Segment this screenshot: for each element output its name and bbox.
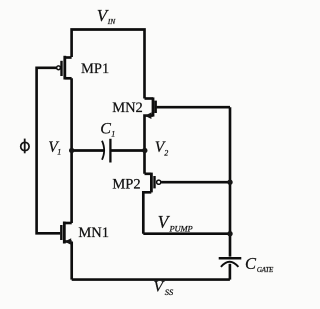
svg-text:MP2: MP2 [112,177,140,193]
svg-text:MP1: MP1 [81,61,109,77]
svg-text:IN: IN [107,17,116,26]
svg-text:1: 1 [111,130,115,139]
svg-text:MN1: MN1 [78,225,109,241]
svg-text:1: 1 [57,148,61,157]
svg-text:GATE: GATE [257,266,274,274]
svg-text:MN2: MN2 [112,100,143,116]
svg-text:C: C [100,121,111,138]
svg-text:SS: SS [165,287,174,297]
svg-text:PUMP: PUMP [169,224,193,234]
svg-text:2: 2 [164,149,168,158]
svg-text:C: C [245,254,257,273]
